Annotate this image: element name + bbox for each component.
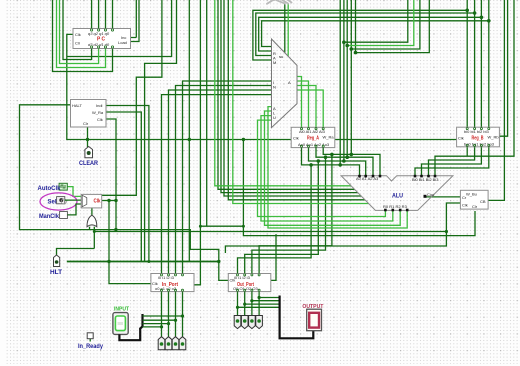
svg-text:su: su	[279, 54, 283, 59]
svg-text:CB: CB	[480, 199, 486, 204]
svg-text:N: N	[273, 85, 276, 90]
svg-text:AutoClk: AutoClk	[38, 185, 61, 192]
svg-text:W_Bu: W_Bu	[466, 192, 477, 197]
svg-text:Clk: Clk	[75, 32, 81, 37]
svg-text:o0 o1 o2 o3: o0 o1 o2 o3	[155, 286, 177, 291]
svg-text:A: A	[288, 80, 291, 85]
svg-text:Indi: Indi	[96, 103, 103, 108]
svg-text:q3 q2 q1 q0: q3 q2 q1 q0	[88, 31, 110, 36]
svg-text:Bi0 Bi1 Bi2 Bi3: Bi0 Bi1 Bi2 Bi3	[412, 177, 439, 182]
svg-text:Clr: Clr	[83, 121, 89, 126]
svg-text:Clk: Clk	[97, 117, 103, 122]
svg-text:Clk: Clk	[462, 203, 468, 208]
svg-text:Clr: Clr	[75, 41, 81, 46]
svg-text:bo0 bo1 bo2 bo3: bo0 bo1 bo2 bo3	[464, 142, 495, 147]
svg-text:Sel: Sel	[48, 199, 57, 206]
svg-text:W_Ra: W_Ra	[323, 135, 335, 140]
svg-text:Clk: Clk	[293, 136, 299, 141]
svg-text:W_Ra: W_Ra	[92, 110, 104, 115]
svg-text:ManClk: ManClk	[39, 213, 59, 220]
svg-text:ALU: ALU	[392, 193, 403, 200]
svg-text:M: M	[273, 60, 276, 65]
svg-text:In_Ready: In_Ready	[78, 343, 103, 350]
svg-text:Clr: Clr	[472, 204, 478, 209]
svg-text:HLT: HLT	[50, 269, 62, 276]
svg-text:Clk: Clk	[94, 199, 102, 205]
svg-text:CLEAR: CLEAR	[79, 160, 98, 167]
svg-text:OUTPUT: OUTPUT	[302, 304, 323, 310]
svg-text:Clk: Clk	[458, 136, 464, 141]
svg-text:Cr: Cr	[462, 195, 467, 200]
svg-text:Ai0 Ai1 Ai2 Ai3: Ai0 Ai1 Ai2 Ai3	[299, 129, 326, 134]
svg-text:Reg_A: Reg_A	[307, 136, 319, 142]
svg-text:HALT: HALT	[72, 103, 82, 108]
svg-text:W_Rb: W_Rb	[488, 135, 500, 140]
svg-text:U: U	[273, 115, 276, 120]
svg-text:INPUT: INPUT	[114, 307, 129, 313]
svg-text:R0 R1 R2 R3: R0 R1 R2 R3	[383, 204, 408, 209]
svg-text:Load: Load	[118, 40, 127, 45]
svg-text:Cou: Cou	[427, 192, 434, 197]
svg-text:A0 A1 A2 A3: A0 A1 A2 A3	[356, 176, 379, 181]
